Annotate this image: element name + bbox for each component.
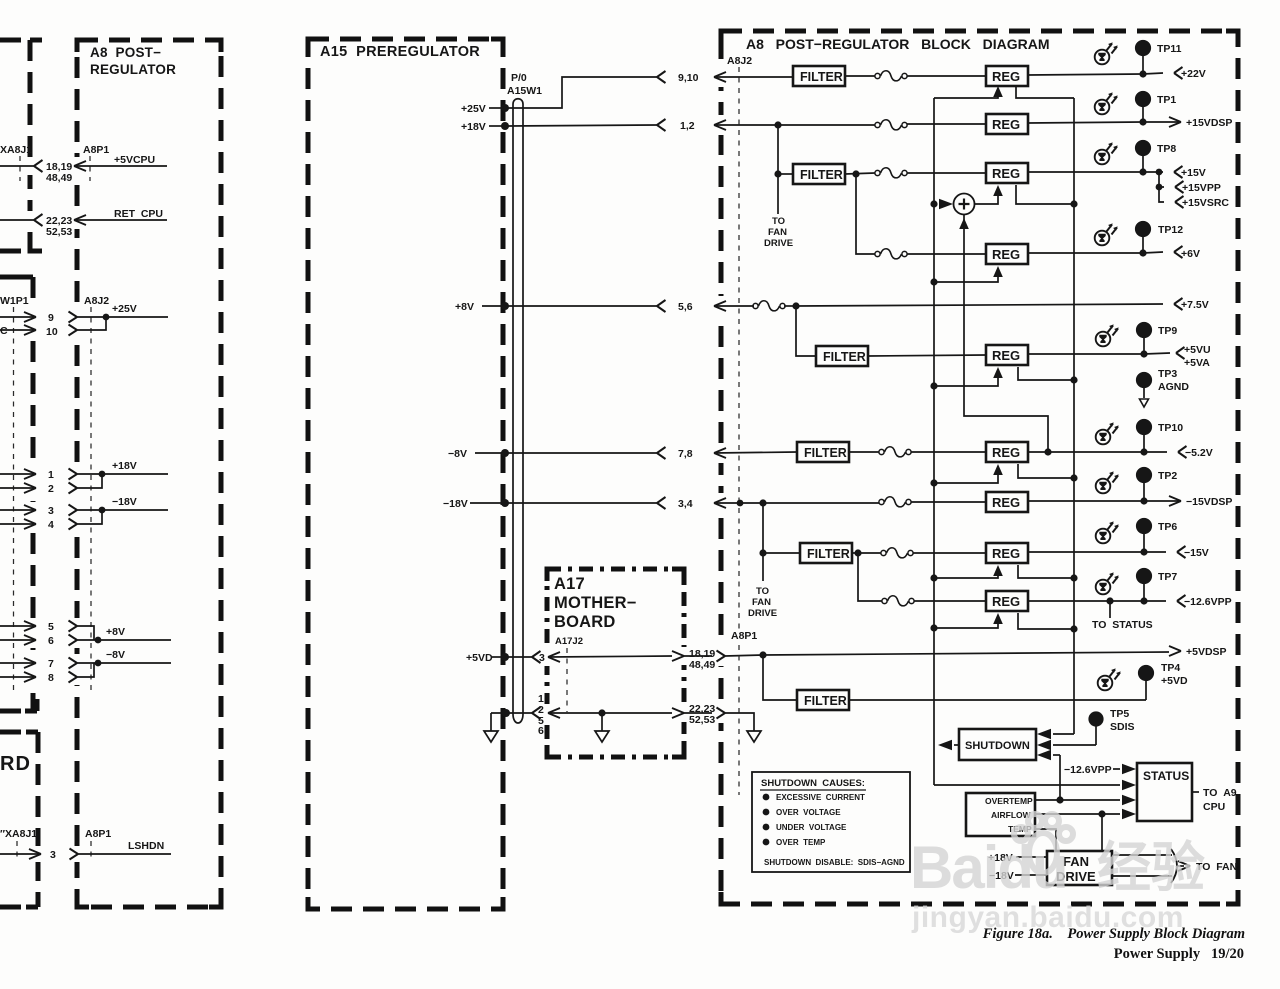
wire row2 REG to +15VDSP out xyxy=(1028,117,1181,127)
wire row1 REG to +22V out xyxy=(1028,67,1183,79)
filter F8 xyxy=(800,543,852,563)
svg-text:SHUTDOWN DISABLE: SDIS−AGND: SHUTDOWN DISABLE: SDIS−AGND xyxy=(764,858,905,867)
svg-text:FAN: FAN xyxy=(1063,854,1089,869)
wire pin 5 xyxy=(0,621,77,632)
ground symbol left xyxy=(484,731,498,742)
wire pin 7 xyxy=(0,658,77,669)
wire -18V to 3,4 xyxy=(470,497,726,509)
svg-text:A8P1: A8P1 xyxy=(83,144,109,156)
wire row3 filter out junction xyxy=(845,170,875,177)
wire RET CPU row xyxy=(0,214,167,226)
left partial box top xyxy=(0,40,30,251)
svg-text:5,6: 5,6 xyxy=(678,301,693,313)
status block xyxy=(1137,763,1192,821)
svg-text:3: 3 xyxy=(50,849,56,861)
filter F3 xyxy=(793,164,845,184)
wire +25V (left box) xyxy=(77,314,168,330)
ground junction mid xyxy=(598,709,605,716)
svg-text:FILTER: FILTER xyxy=(800,70,843,84)
svg-text:+8V: +8V xyxy=(455,301,474,313)
wire row9 REG to -12.6VPP out xyxy=(1028,595,1186,607)
sensor block overtemp/airflow/temp xyxy=(966,793,1035,836)
test point TP3 AGND xyxy=(1136,372,1152,398)
svg-text:TP6: TP6 xyxy=(1158,521,1177,533)
svg-text:7: 7 xyxy=(48,658,54,670)
left partial box middle xyxy=(0,277,37,711)
wire filter10 to TP4 xyxy=(849,699,1146,701)
wire left bus into summing junction xyxy=(939,199,953,209)
left control bus xyxy=(930,98,937,785)
wire shutdown output to bus xyxy=(938,740,959,750)
wire summing junction bottom input xyxy=(959,214,1048,452)
wire LSHDN pin 3 xyxy=(0,849,171,860)
wire -8V (left box) xyxy=(77,660,171,677)
svg-text:TO: TO xyxy=(772,216,785,227)
wire row1 fuse to REG xyxy=(907,75,986,77)
wire temp to fan drive xyxy=(1035,829,1056,851)
LED indicator row8 xyxy=(1096,521,1119,543)
svg-text:AIRFLOW: AIRFLOW xyxy=(991,810,1032,820)
svg-text:+5VCPU: +5VCPU xyxy=(114,154,155,166)
wire pin 3 xyxy=(0,505,77,516)
svg-text:FILTER: FILTER xyxy=(804,446,847,460)
svg-text:A17: A17 xyxy=(554,575,585,593)
svg-text:+18V: +18V xyxy=(112,460,137,472)
svg-text:RET CPU: RET CPU xyxy=(114,208,163,220)
svg-text:RD: RD xyxy=(0,753,31,775)
svg-text:LSHDN: LSHDN xyxy=(128,840,164,852)
svg-text:52,53: 52,53 xyxy=(46,226,72,238)
svg-text:3: 3 xyxy=(48,505,54,517)
wire fan output upper xyxy=(1112,854,1172,856)
test point TP12 xyxy=(1135,221,1151,253)
A17 motherboard box xyxy=(547,569,684,757)
svg-text:3,4: 3,4 xyxy=(678,498,693,510)
svg-text:FILTER: FILTER xyxy=(800,168,843,182)
wire +18V to 1,2 xyxy=(489,119,875,131)
LED indicator row6 xyxy=(1096,422,1119,444)
wire row2 to fuse xyxy=(774,121,781,128)
svg-text:+15VPP: +15VPP xyxy=(1182,182,1221,194)
svg-text:BOARD: BOARD xyxy=(554,613,616,631)
wire row8 fuse to REG xyxy=(913,552,986,554)
wire ground inside main box xyxy=(725,713,761,742)
wire REG9 feedback xyxy=(934,613,1074,629)
svg-text:+25V: +25V xyxy=(112,303,137,315)
wire +18V to fan drive xyxy=(1016,856,1047,858)
svg-text:−8V: −8V xyxy=(106,649,125,661)
wire row4 REG to +6V out xyxy=(1028,246,1183,258)
fuse row2 xyxy=(875,120,907,130)
svg-text:A8 POST−REGULATOR BLOCK DIA: A8 POST−REGULATOR BLOCK DIAGRAM xyxy=(746,36,1050,52)
svg-text:+5VD: +5VD xyxy=(466,652,493,664)
LED indicator TP4 xyxy=(1098,668,1121,690)
svg-text:REG: REG xyxy=(992,445,1020,460)
filter F6 xyxy=(797,442,849,462)
wire row8 into filter xyxy=(763,552,800,554)
svg-text:3: 3 xyxy=(539,652,545,664)
wire row7 fuse to REG xyxy=(714,502,986,503)
wire row5 REG to +5VU out xyxy=(1028,347,1185,359)
wire row4 fuse to REG xyxy=(907,253,986,255)
svg-text:REGULATOR: REGULATOR xyxy=(90,62,176,77)
wire pin 4 xyxy=(0,519,77,530)
wire REG6 feedback xyxy=(934,464,1074,483)
svg-text:TEMP: TEMP xyxy=(1008,824,1032,834)
wire row8 REG to -15V out xyxy=(1028,546,1186,558)
wire airflow to status xyxy=(1035,809,1136,819)
connector dashes A8J2 left box xyxy=(90,307,92,690)
svg-text:A8P1: A8P1 xyxy=(85,828,111,840)
wire -8V to 7,8 xyxy=(475,447,797,459)
connector dash bottom XA8J1 xyxy=(16,841,18,858)
svg-text:DRIVE: DRIVE xyxy=(764,238,793,249)
ground stem mid xyxy=(601,713,603,731)
svg-text:TP10: TP10 xyxy=(1158,422,1183,434)
svg-text:+5VA: +5VA xyxy=(1184,357,1210,369)
test point TP4 xyxy=(1138,665,1154,700)
svg-text:SHUTDOWN: SHUTDOWN xyxy=(965,740,1030,752)
svg-text:−18V: −18V xyxy=(989,870,1014,882)
svg-text:OVERTEMP: OVERTEMP xyxy=(985,796,1033,806)
svg-text:+15V: +15V xyxy=(1181,167,1206,179)
A8 post-regulator box (left) xyxy=(77,40,221,907)
svg-text:+15VDSP: +15VDSP xyxy=(1186,117,1232,129)
svg-text:TO A9: TO A9 xyxy=(1203,787,1237,799)
LED indicator row4 xyxy=(1095,223,1118,245)
wire pin 10 xyxy=(0,325,77,336)
svg-text:TP9: TP9 xyxy=(1158,325,1177,337)
svg-text:A8P1: A8P1 xyxy=(731,630,757,642)
fuse row7 xyxy=(879,497,911,507)
connector dashes left box xyxy=(13,307,15,690)
REG U6 xyxy=(986,442,1028,462)
test point TP6 xyxy=(1136,518,1152,552)
wire ground row A17 xyxy=(491,707,725,719)
svg-text:A8J2: A8J2 xyxy=(727,55,752,67)
wire overtemp to status xyxy=(1035,795,1136,805)
fuse row1 xyxy=(875,71,907,81)
wire row6 filter to fuse xyxy=(849,451,879,453)
svg-text:−12.6VPP: −12.6VPP xyxy=(1184,596,1232,608)
wire +8V to 5,6 xyxy=(482,300,726,312)
cable A15W1 xyxy=(513,99,523,723)
LED indicator row7 xyxy=(1096,471,1119,493)
svg-text:FILTER: FILTER xyxy=(804,694,847,708)
svg-text:XA8J1: XA8J1 xyxy=(0,144,32,156)
LED indicator row1 xyxy=(1095,42,1118,64)
ground symbol mid xyxy=(595,731,609,742)
filter F1 xyxy=(793,66,845,86)
test point TP8 xyxy=(1135,140,1151,172)
svg-text:TP8: TP8 xyxy=(1157,143,1176,155)
svg-text:TP12: TP12 xyxy=(1158,224,1183,236)
svg-text:A8 POST−: A8 POST− xyxy=(90,45,161,60)
svg-text:−8V: −8V xyxy=(448,448,467,460)
REG U3 xyxy=(986,163,1028,183)
svg-text:REG: REG xyxy=(992,348,1020,363)
svg-text:A15 PREREGULATOR: A15 PREREGULATOR xyxy=(320,44,480,60)
wire +18V (left box) xyxy=(77,471,168,488)
fuse row8 xyxy=(881,548,913,558)
svg-text:TP11: TP11 xyxy=(1157,43,1182,55)
label TO FAN DRIVE (lower) xyxy=(748,586,777,619)
svg-text:6: 6 xyxy=(538,725,544,737)
svg-text:+8V: +8V xyxy=(106,626,125,638)
connector dash A8J2/A8P1 main xyxy=(738,67,740,795)
border gap patches xyxy=(24,67,729,862)
svg-text:+18V: +18V xyxy=(461,121,486,133)
svg-text:OVER TEMP: OVER TEMP xyxy=(776,838,826,847)
REG U5 xyxy=(986,345,1028,365)
status input arrow 2 xyxy=(1122,780,1136,790)
wire status output xyxy=(1192,791,1199,793)
svg-text:TP1: TP1 xyxy=(1157,94,1176,106)
wire REG4 feedback xyxy=(934,266,1003,282)
right feedback bus xyxy=(1070,98,1077,734)
fan drive block xyxy=(1047,851,1112,885)
svg-text:8: 8 xyxy=(48,672,54,684)
svg-text:+5VU: +5VU xyxy=(1184,344,1211,356)
svg-text:5: 5 xyxy=(48,621,54,633)
connector dash under A8P1 xyxy=(89,156,91,181)
svg-text:−5.2V: −5.2V xyxy=(1185,447,1213,459)
svg-text:FAN: FAN xyxy=(768,227,787,238)
svg-text:REG: REG xyxy=(992,117,1020,132)
svg-text:DRIVE: DRIVE xyxy=(748,608,777,619)
svg-text:STATUS: STATUS xyxy=(1143,769,1189,783)
svg-text:REG: REG xyxy=(992,69,1020,84)
test point TP5 SDIS xyxy=(1088,711,1103,745)
wire row7 REG to -15VDSP out xyxy=(1028,496,1181,506)
caption xyxy=(0,926,1245,943)
svg-text:4: 4 xyxy=(48,519,54,531)
wire REG1 feedback xyxy=(934,86,1074,98)
wire -12.6VPP arrow into status xyxy=(1113,764,1136,774)
wire +15VPP +15VSRC branch xyxy=(1156,169,1184,208)
wire row7 junction dots xyxy=(737,499,767,506)
wire row9 fuse to REG xyxy=(914,600,986,602)
fuse row6 xyxy=(879,447,911,457)
svg-text:−18V: −18V xyxy=(443,498,468,510)
LED indicator row5 xyxy=(1096,324,1119,346)
caption page number xyxy=(0,946,1244,963)
svg-text:A8J2: A8J2 xyxy=(84,295,109,307)
wire row3 into filter xyxy=(778,173,793,175)
svg-text:MOTHER−: MOTHER− xyxy=(554,594,637,612)
fan output brace xyxy=(1171,849,1190,883)
svg-text:FILTER: FILTER xyxy=(807,547,850,561)
REG U4 xyxy=(986,244,1028,264)
svg-text:DRIVE: DRIVE xyxy=(1056,869,1096,884)
svg-text:P/0: P/0 xyxy=(511,72,527,84)
wire right bus into shutdown xyxy=(1037,729,1074,739)
svg-text:TO STATUS: TO STATUS xyxy=(1092,619,1153,631)
filter F5 xyxy=(816,346,868,366)
svg-text:1: 1 xyxy=(48,469,54,481)
A8 post-regulator block diagram main box xyxy=(721,31,1238,904)
test point TP11 xyxy=(1135,40,1151,74)
svg-text:6: 6 xyxy=(48,635,54,647)
svg-text:+18V: +18V xyxy=(988,852,1013,864)
svg-text:9: 9 xyxy=(48,312,54,324)
svg-text:+5VD: +5VD xyxy=(1161,675,1188,687)
wire row5 filter to REG xyxy=(868,355,986,356)
test point TP9 xyxy=(1136,322,1152,354)
wire row3 REG to +15V out xyxy=(1028,166,1183,178)
wire row6 REG to -5.2V out xyxy=(1028,446,1187,458)
svg-text:+5VDSP: +5VDSP xyxy=(1186,646,1227,658)
svg-text:48,49: 48,49 xyxy=(689,659,715,671)
svg-text:W1P1: W1P1 xyxy=(0,295,29,307)
wire +8V (left box) xyxy=(77,626,171,643)
wire REG5 feedback xyxy=(934,367,1074,386)
svg-text:52,53: 52,53 xyxy=(689,714,715,726)
svg-text:FILTER: FILTER xyxy=(823,350,866,364)
svg-text:−15V: −15V xyxy=(1184,547,1209,559)
svg-text:+6V: +6V xyxy=(1181,248,1200,260)
wire row8 filter out junction xyxy=(852,549,881,556)
svg-text:AGND: AGND xyxy=(1158,381,1189,393)
wire left bus to status xyxy=(934,784,1120,786)
svg-text:−18V: −18V xyxy=(112,496,137,508)
wire row3 fuse to REG xyxy=(907,172,986,174)
ground stem left xyxy=(490,713,492,731)
fuse row9 xyxy=(882,596,914,606)
svg-text:TO: TO xyxy=(756,586,769,597)
svg-text:UNDER VOLTAGE: UNDER VOLTAGE xyxy=(776,823,847,832)
wire row1 filter to fuse xyxy=(845,75,875,77)
svg-text:TO FAN: TO FAN xyxy=(1196,861,1237,873)
REG U2 xyxy=(986,114,1028,134)
wire row5 drop to filter5 xyxy=(796,306,816,356)
LED indicator row3 xyxy=(1095,142,1118,164)
svg-text:TP7: TP7 xyxy=(1158,571,1177,583)
REG U8 xyxy=(986,543,1028,563)
wire REG8 feedback xyxy=(934,565,1074,578)
svg-text:+7.5V: +7.5V xyxy=(1181,299,1209,311)
svg-text:OVER VOLTAGE: OVER VOLTAGE xyxy=(776,808,841,817)
svg-text:9,10: 9,10 xyxy=(678,72,699,84)
wire row2 fuse to REG xyxy=(907,123,986,125)
svg-text:REG: REG xyxy=(992,166,1020,181)
svg-text:C: C xyxy=(0,325,8,337)
wire +5VDSP drop to filter10 xyxy=(763,655,797,700)
svg-text:+15VSRC: +15VSRC xyxy=(1182,197,1229,209)
wire row6 fuse to REG xyxy=(911,451,986,453)
svg-text:″XA8J1: ″XA8J1 xyxy=(0,828,37,840)
connector dash bottom A8P1 xyxy=(90,841,92,858)
svg-text:2: 2 xyxy=(48,483,54,495)
svg-text:REG: REG xyxy=(992,546,1020,561)
connector dash under XA8J1 xyxy=(19,156,21,181)
wire pin 6 xyxy=(0,635,77,646)
A15 preregulator box xyxy=(308,39,503,909)
svg-text:A15W1: A15W1 xyxy=(507,85,542,97)
svg-text:1,2: 1,2 xyxy=(680,120,695,132)
svg-text:48,49: 48,49 xyxy=(46,172,72,184)
svg-text:TP5: TP5 xyxy=(1110,708,1129,720)
test point TP7 xyxy=(1136,568,1152,601)
fuse row4 xyxy=(875,249,907,259)
svg-text:TP4: TP4 xyxy=(1161,662,1180,674)
svg-text:10: 10 xyxy=(46,326,58,338)
svg-text:REG: REG xyxy=(992,495,1020,510)
wire pin 1 xyxy=(0,469,77,480)
wire row3 to row4 drop xyxy=(856,174,875,254)
wire +5VD to 18,19 48,49 xyxy=(492,651,763,664)
svg-text:−15VDSP: −15VDSP xyxy=(1186,496,1232,508)
test point TP2 xyxy=(1136,467,1152,501)
test point TP10 xyxy=(1136,419,1152,452)
REG U7 xyxy=(986,492,1028,512)
wire airflow to fan drive xyxy=(1101,814,1103,851)
wire summing junction to REG3 xyxy=(974,185,1074,204)
label TO FAN DRIVE (upper) xyxy=(764,216,793,249)
left partial box bottom xyxy=(0,732,38,907)
wire -18V to fan drive xyxy=(1015,874,1047,876)
wire row2 to row3 branch (to fan drive stub) xyxy=(774,125,781,214)
LED indicator row2 xyxy=(1095,92,1118,114)
svg-text:+22V: +22V xyxy=(1181,68,1206,80)
svg-text:REG: REG xyxy=(992,594,1020,609)
wire -12.6VPP into shutdown xyxy=(1037,750,1060,800)
wire +5VDSP row xyxy=(759,646,1181,659)
wire pin 2 xyxy=(0,483,77,494)
svg-text:REG: REG xyxy=(992,247,1020,262)
svg-text:SDIS: SDIS xyxy=(1110,721,1135,733)
REG U1 xyxy=(986,66,1028,86)
svg-text:+25V: +25V xyxy=(461,103,486,115)
shutdown causes box xyxy=(752,772,910,872)
svg-text:SHUTDOWN CAUSES:: SHUTDOWN CAUSES: xyxy=(761,778,865,789)
wire row8 drop to row9 xyxy=(858,553,882,601)
wire -18V (left box) xyxy=(77,507,168,524)
shutdown block xyxy=(959,729,1036,760)
svg-text:EXCESSIVE CURRENT: EXCESSIVE CURRENT xyxy=(776,793,865,802)
svg-text:CPU: CPU xyxy=(1203,801,1225,813)
wire fan output lower xyxy=(1112,875,1172,877)
filter F10 xyxy=(797,690,849,710)
wire TP5 into shutdown xyxy=(1037,740,1096,750)
wire TO STATUS stub xyxy=(1109,601,1111,618)
wire pin 9 xyxy=(0,312,77,323)
REG U9 xyxy=(986,591,1028,611)
svg-text:A17J2: A17J2 xyxy=(555,636,583,647)
svg-text:−12.6VPP: −12.6VPP xyxy=(1064,764,1112,776)
svg-text:TP3: TP3 xyxy=(1158,368,1177,380)
svg-text:TP2: TP2 xyxy=(1158,470,1177,482)
wire pin 8 xyxy=(0,672,77,683)
test point TP1 xyxy=(1135,91,1151,122)
LED indicator row9 xyxy=(1096,572,1119,594)
wire +5VCPU row xyxy=(0,160,167,172)
summing junction xyxy=(954,194,975,215)
wire +25V to 9,10 xyxy=(489,71,793,112)
fuse row3 xyxy=(875,168,907,178)
svg-text:FAN: FAN xyxy=(752,597,771,608)
connector dash A17J2 xyxy=(566,648,568,712)
svg-text:7,8: 7,8 xyxy=(678,448,693,460)
wire row7 drop to row8 and fan stub xyxy=(759,503,766,581)
arrow down TP3 xyxy=(1140,399,1149,407)
wire row5 +7.5V xyxy=(714,298,1183,311)
